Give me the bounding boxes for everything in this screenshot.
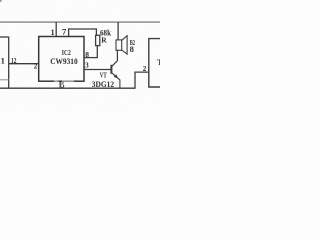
svg-text:R: R [101, 36, 107, 45]
svg-text:VT: VT [100, 72, 107, 80]
svg-text:2: 2 [34, 62, 38, 70]
svg-text:2: 2 [143, 65, 147, 73]
svg-text:8: 8 [130, 44, 134, 54]
svg-text:12: 12 [11, 56, 17, 65]
svg-text:1: 1 [1, 56, 5, 66]
svg-text:T: T [157, 58, 160, 67]
svg-text:1: 1 [51, 28, 55, 37]
svg-text:3: 3 [85, 61, 89, 70]
svg-text:CW9310: CW9310 [50, 57, 77, 66]
svg-text:5: 5 [61, 81, 65, 89]
svg-text:8: 8 [85, 50, 89, 59]
svg-text:3DG12: 3DG12 [92, 80, 114, 89]
svg-text:IC2: IC2 [62, 48, 71, 57]
